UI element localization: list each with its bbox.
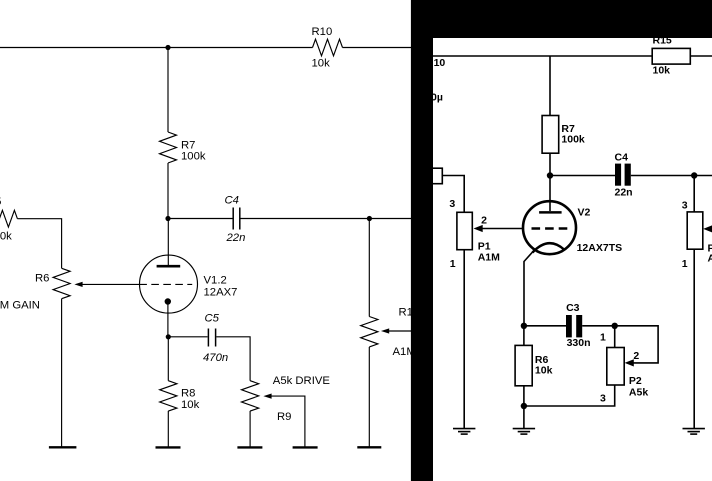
potentiometer R11 — [361, 317, 378, 347]
svg-text:3: 3 — [600, 393, 606, 405]
svg-text:1: 1 — [682, 258, 688, 270]
capacitor C4 — [615, 164, 621, 186]
svg-text:A5k: A5k — [629, 387, 648, 399]
svg-text:1: 1 — [450, 258, 456, 270]
potentiometer R6 — [53, 268, 70, 298]
tube V1 cathode dot — [165, 298, 171, 304]
resistor R6 — [515, 345, 532, 385]
arrowhead into R11 wiper — [381, 328, 389, 333]
node anode rail — [165, 216, 170, 221]
tube V2 circle — [523, 201, 576, 254]
wire cathode down — [167, 302, 169, 337]
svg-text:1: 1 — [600, 331, 606, 343]
svg-text:470n: 470n — [203, 352, 228, 364]
wire C5 to R9 top — [216, 337, 250, 381]
wire anode lead — [167, 219, 169, 266]
svg-text:10k: 10k — [653, 65, 671, 77]
wire node to R7 — [167, 48, 169, 133]
resistor R7 — [160, 132, 177, 163]
tube V2 anode bar — [539, 211, 562, 214]
tube V2 grid dashed — [532, 227, 568, 229]
svg-text:12AX7: 12AX7 — [204, 287, 238, 299]
wire top rail to R15 — [433, 55, 652, 57]
capacitor C4 — [233, 208, 240, 230]
wire P2 wiper loop — [615, 326, 658, 363]
ground R6 — [49, 446, 77, 448]
svg-text:P2: P2 — [629, 375, 642, 387]
tube V1 anode bar — [157, 265, 181, 268]
wire P3 to ground — [693, 249, 695, 428]
ground P1 — [453, 429, 475, 435]
wire C4 to edge — [631, 175, 712, 177]
wire R15 to edge — [690, 55, 712, 57]
ground R6 — [513, 429, 535, 435]
wire node to P2 — [614, 326, 616, 348]
node far pot branch — [691, 172, 697, 178]
wire R6 to bottom node — [523, 386, 525, 406]
potentiometer R9 — [242, 381, 259, 411]
svg-text:3: 3 — [449, 198, 455, 210]
wire C4 to black bar — [241, 218, 413, 220]
arrowhead into P2 wiper — [625, 359, 634, 366]
svg-text:V2: V2 — [578, 206, 591, 218]
svg-text:1M GAIN: 1M GAIN — [0, 299, 40, 311]
wire P2 to bottom rail — [524, 385, 615, 406]
wire R6 to ground — [61, 299, 63, 448]
svg-text:100k: 100k — [561, 133, 585, 145]
arrowhead into R6 wiper — [74, 282, 82, 287]
potentiometer P1 — [457, 212, 472, 249]
svg-text:10: 10 — [434, 57, 446, 69]
svg-text:22n: 22n — [615, 187, 633, 199]
svg-text:3: 3 — [682, 199, 688, 211]
ground R11 — [357, 446, 381, 448]
wire top rail right of R10 — [343, 47, 413, 49]
wire R5 to R6 top — [17, 219, 61, 269]
wire R9 wiper to ground — [272, 396, 305, 447]
wire node to C4 — [168, 218, 233, 220]
arrowhead into P1 wiper — [474, 225, 483, 232]
wire anode lead — [549, 176, 551, 212]
node bottom rail — [521, 403, 527, 409]
wire node to C3 — [524, 325, 566, 327]
svg-text:A5k DRIVE: A5k DRIVE — [273, 375, 331, 387]
tube V1 grid dashed — [139, 283, 192, 285]
resistor R10 — [313, 39, 343, 56]
svg-text:C4: C4 — [615, 151, 629, 163]
node P2 top — [612, 323, 618, 329]
wire R9 to ground — [249, 411, 251, 448]
capacitor C5 — [208, 329, 215, 347]
wire C3 to P2 node — [582, 325, 615, 327]
resistor R7 — [542, 116, 559, 154]
LEFT-SCHEMATIC — [0, 26, 418, 447]
wire cathode tail — [524, 252, 533, 326]
wire rail to R7 — [549, 56, 551, 116]
svg-text:R9: R9 — [277, 411, 291, 423]
black divider bar — [411, 0, 433, 481]
svg-text:470k: 470k — [0, 230, 12, 242]
node top rail / R7 — [165, 45, 170, 50]
capacitor C3 — [566, 315, 572, 337]
svg-text:R8: R8 — [181, 388, 195, 400]
potentiometer P2 — [607, 348, 624, 386]
svg-text:A5: A5 — [708, 253, 712, 265]
svg-text:10k: 10k — [535, 364, 553, 376]
node R11 branch — [367, 216, 372, 221]
wire R11 to ground — [368, 347, 370, 447]
svg-text:12AX7TS: 12AX7TS — [577, 242, 623, 254]
wire R8 to ground — [167, 411, 169, 448]
svg-text:330n: 330n — [567, 337, 591, 349]
svg-text:V1.2: V1.2 — [204, 275, 227, 287]
RIGHT-SCHEMATIC — [428, 35, 712, 435]
svg-text:2: 2 — [633, 350, 639, 362]
node cathode junction — [166, 334, 171, 339]
ground R9 — [237, 446, 262, 448]
potentiometer P3 — [687, 212, 703, 249]
wire P1 wiper to V2 grid — [483, 228, 524, 230]
ground R8 — [156, 446, 181, 448]
resistor R15 — [652, 48, 690, 64]
svg-text:2: 2 — [481, 214, 487, 226]
wire P1 to ground — [463, 250, 465, 429]
wire node to R8 — [167, 337, 169, 381]
ground P3 — [683, 429, 705, 435]
svg-text:R5: R5 — [0, 196, 1, 208]
resistor R8 — [160, 381, 177, 411]
black top strip — [433, 0, 712, 38]
wire node to R11 — [368, 219, 370, 317]
wire node to C5 — [168, 336, 207, 338]
wire node to C4 — [550, 175, 615, 177]
wire top rail left of R10 — [0, 47, 313, 49]
wire R11 wiper from bar — [389, 330, 413, 332]
svg-text:R10: R10 — [312, 26, 333, 38]
svg-text:C3: C3 — [566, 302, 580, 314]
svg-text:22n: 22n — [226, 232, 246, 244]
wire grid lead to R6 arrow — [82, 283, 139, 285]
svg-text:C5: C5 — [205, 313, 220, 325]
svg-text:A1M: A1M — [478, 251, 500, 263]
svg-text:10k: 10k — [181, 399, 200, 411]
op tube V1 circle — [140, 255, 198, 313]
ground R9 wiper — [293, 446, 318, 448]
wire stub to P1 — [442, 176, 464, 213]
wire bottom node to ground — [523, 406, 525, 429]
tube V2 cathode arc — [533, 243, 565, 252]
svg-text:R6: R6 — [35, 273, 49, 285]
svg-text:10k: 10k — [312, 58, 331, 70]
node cathode junction — [521, 323, 527, 329]
wire node to far pot — [693, 176, 695, 212]
wire R7 to anode node — [167, 163, 169, 219]
svg-text:100k: 100k — [181, 151, 206, 163]
arrowhead into P3 wiper — [703, 225, 712, 232]
connector stub at bar — [428, 168, 442, 184]
svg-text:C4: C4 — [225, 195, 239, 207]
wire R7 to anode node — [549, 153, 551, 175]
arrowhead into R9 wiper — [263, 394, 271, 399]
wire node to R6 — [523, 326, 525, 346]
node anode — [547, 172, 553, 178]
